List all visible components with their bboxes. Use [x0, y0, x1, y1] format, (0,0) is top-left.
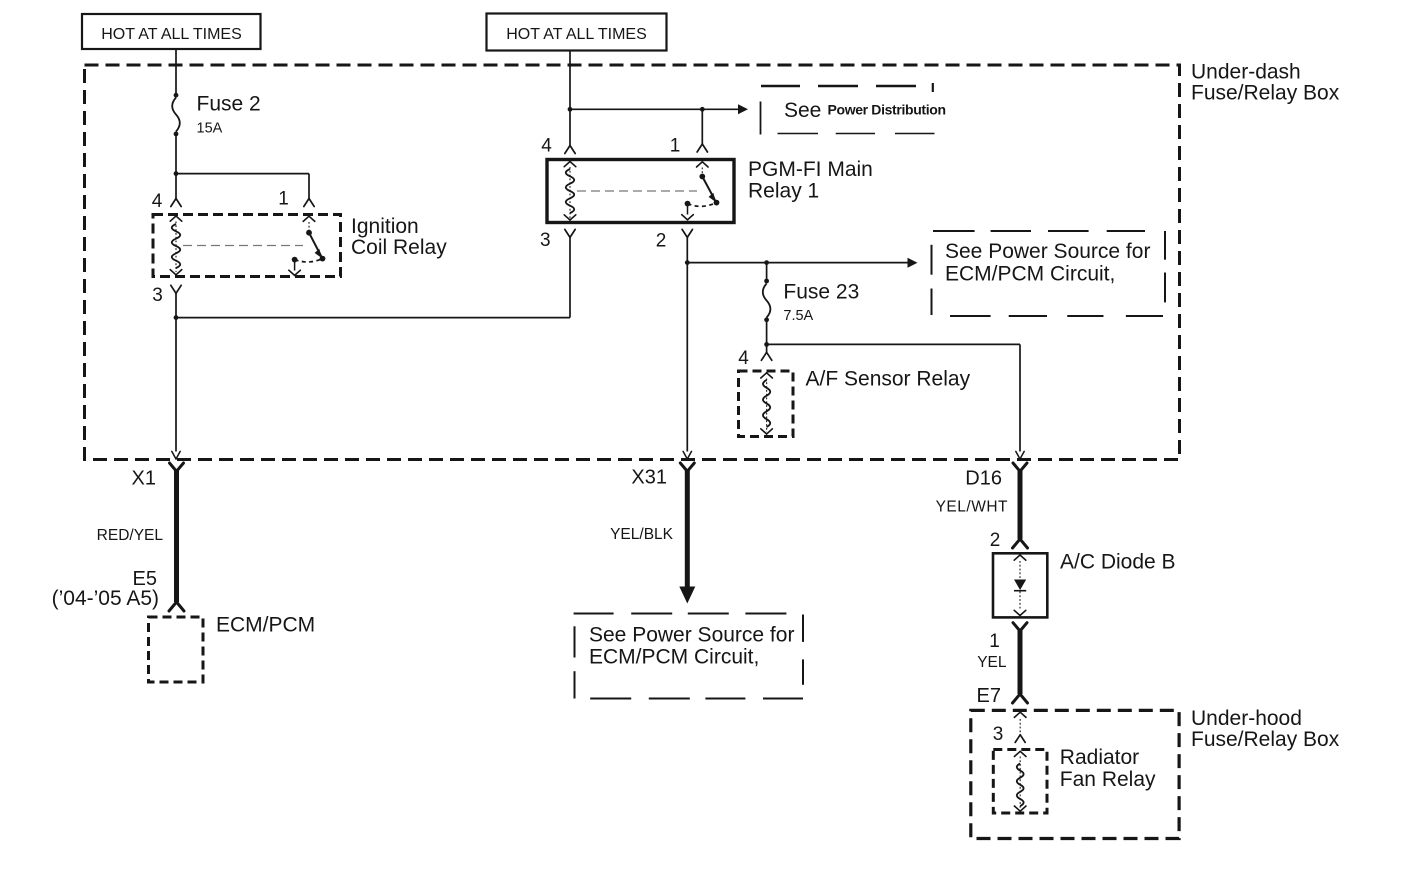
svg-text:X1: X1	[132, 468, 156, 490]
svg-text:RED/YEL: RED/YEL	[97, 527, 164, 544]
svg-text:Under-hood: Under-hood	[1191, 707, 1302, 730]
svg-text:Radiator: Radiator	[1060, 746, 1139, 769]
svg-text:Under-dash: Under-dash	[1191, 61, 1301, 84]
svg-text:15A: 15A	[197, 121, 223, 137]
svg-text:Fan Relay: Fan Relay	[1060, 768, 1156, 791]
svg-text:1: 1	[989, 631, 1000, 652]
svg-text:PGM-FI Main: PGM-FI Main	[748, 158, 873, 181]
svg-text:A/F Sensor Relay: A/F Sensor Relay	[806, 368, 971, 391]
svg-text:1: 1	[278, 189, 289, 210]
svg-text:E7: E7	[977, 685, 1001, 707]
svg-text:ECM/PCM Circuit,: ECM/PCM Circuit,	[945, 263, 1115, 286]
svg-text:3: 3	[540, 230, 551, 251]
svg-text:3: 3	[993, 724, 1004, 745]
svg-text:4: 4	[152, 191, 163, 212]
svg-text:Power Distribution: Power Distribution	[828, 102, 946, 118]
svg-text:X31: X31	[631, 467, 667, 489]
svg-text:Fuse 2: Fuse 2	[197, 93, 261, 116]
svg-text:YEL: YEL	[977, 654, 1007, 671]
svg-text:Relay 1: Relay 1	[748, 180, 819, 203]
svg-text:4: 4	[738, 348, 749, 369]
svg-text:7.5A: 7.5A	[783, 308, 813, 324]
svg-text:3: 3	[152, 285, 163, 306]
svg-text:2: 2	[990, 530, 1001, 551]
svg-text:See: See	[784, 99, 821, 122]
svg-text:See Power Source for: See Power Source for	[589, 624, 794, 647]
svg-text:1: 1	[670, 136, 681, 157]
svg-text:Coil Relay: Coil Relay	[351, 236, 447, 259]
svg-text:ECM/PCM Circuit,: ECM/PCM Circuit,	[589, 646, 759, 669]
svg-text:D16: D16	[965, 468, 1002, 490]
svg-text:Ignition: Ignition	[351, 215, 419, 238]
svg-text:ECM/PCM: ECM/PCM	[216, 614, 315, 637]
svg-text:HOT AT ALL TIMES: HOT AT ALL TIMES	[101, 26, 242, 43]
svg-text:YEL/WHT: YEL/WHT	[936, 499, 1008, 516]
svg-text:HOT AT ALL TIMES: HOT AT ALL TIMES	[506, 26, 647, 43]
svg-text:2: 2	[656, 231, 667, 252]
svg-text:Fuse/Relay Box: Fuse/Relay Box	[1191, 728, 1340, 751]
svg-text:See Power Source for: See Power Source for	[945, 240, 1150, 263]
svg-text:4: 4	[541, 136, 552, 157]
svg-text:YEL/BLK: YEL/BLK	[610, 526, 674, 543]
svg-text:Fuse 23: Fuse 23	[783, 281, 859, 304]
svg-text:(’04-’05 A5): (’04-’05 A5)	[52, 587, 159, 610]
svg-text:Fuse/Relay Box: Fuse/Relay Box	[1191, 82, 1340, 105]
svg-text:A/C Diode B: A/C Diode B	[1060, 551, 1176, 574]
